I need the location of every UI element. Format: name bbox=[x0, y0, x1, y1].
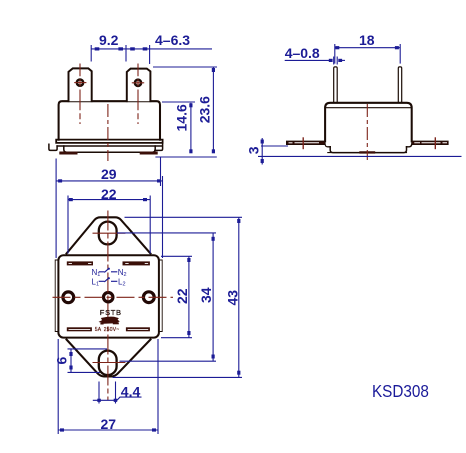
side view left curl bbox=[325, 144, 330, 147]
bottom view left side flange tab bbox=[55, 260, 58, 332]
bottom view horizontal centerline bbox=[53, 296, 174, 298]
dimension 22 horizontal bbox=[68, 196, 150, 254]
side view left flange hole centerline bbox=[302, 137, 304, 149]
svg-text:4–0.8: 4–0.8 bbox=[285, 45, 320, 61]
front view left foot bbox=[61, 152, 76, 155]
svg-text:5A250V~: 5A250V~ bbox=[95, 327, 120, 333]
svg-text:43: 43 bbox=[224, 290, 240, 306]
svg-text:6: 6 bbox=[54, 357, 70, 365]
front view vertical centerline bbox=[107, 104, 109, 161]
bottom view bottom oval hole bbox=[99, 351, 117, 376]
svg-text:22: 22 bbox=[174, 288, 190, 304]
svg-text:27: 27 bbox=[101, 416, 117, 432]
side view right flange hole centerline bbox=[434, 137, 436, 149]
svg-text:14.6: 14.6 bbox=[174, 104, 190, 131]
front view bottom cap bbox=[64, 146, 155, 152]
svg-text:FSTB: FSTB bbox=[100, 308, 122, 317]
side view bottom cap bbox=[328, 147, 407, 153]
front view right foot bbox=[141, 152, 156, 155]
side view left flange bbox=[286, 141, 325, 145]
bottom view right circle bbox=[143, 292, 154, 303]
dimension 18 bbox=[335, 44, 400, 64]
bottom view slot bottom-right bbox=[126, 327, 150, 331]
bottom view body outer bbox=[58, 255, 158, 337]
dimension 4.4 bbox=[93, 382, 142, 404]
marking logo blob bbox=[100, 317, 119, 323]
bottom view top oval centerline bbox=[93, 232, 126, 234]
bottom view vertical centerline bbox=[107, 211, 109, 401]
svg-text:29: 29 bbox=[101, 166, 117, 182]
dimension 23.6 bbox=[153, 67, 217, 152]
side view right curl bbox=[407, 144, 412, 147]
dimension 43 bbox=[113, 217, 243, 377]
bottom view bottom flange bbox=[67, 340, 151, 377]
bottom view center circle bbox=[104, 293, 113, 302]
dimension 34 bbox=[117, 233, 216, 361]
bottom view top flange bbox=[67, 217, 151, 253]
bottom view right side flange tab bbox=[159, 260, 162, 332]
svg-text:22: 22 bbox=[101, 186, 117, 202]
dimension 4-6.3 bbox=[150, 48, 212, 50]
side view right flange bbox=[412, 141, 449, 145]
bottom view slot bottom-left bbox=[67, 327, 92, 331]
bottom view slot top-right bbox=[123, 261, 150, 265]
dimension 29 bbox=[56, 158, 162, 259]
bottom view left circle bbox=[63, 292, 74, 303]
front view body outline bbox=[59, 101, 160, 140]
side view right pin bbox=[398, 67, 401, 103]
front view left hook bbox=[49, 144, 57, 150]
side view centerline bbox=[366, 104, 368, 160]
front view left tab hole bbox=[77, 80, 83, 86]
svg-text:9.2: 9.2 bbox=[99, 32, 119, 48]
dimension 9.2 bbox=[91, 45, 149, 64]
svg-text:KSD308: KSD308 bbox=[372, 381, 429, 401]
front view right terminal tab bbox=[127, 69, 151, 102]
front view right hook bbox=[155, 143, 163, 151]
svg-text:34: 34 bbox=[198, 287, 214, 303]
svg-text:18: 18 bbox=[359, 32, 375, 48]
front view centerline left tab bbox=[74, 64, 86, 125]
dimension 27 bbox=[58, 339, 158, 434]
dimension 4-0.8 bbox=[285, 57, 345, 65]
svg-text:23.6: 23.6 bbox=[197, 96, 213, 123]
side view body bbox=[325, 103, 412, 142]
front view left terminal tab bbox=[69, 68, 92, 101]
bottom view bottom oval centerline bbox=[93, 362, 126, 364]
front view right tab hole bbox=[135, 80, 141, 86]
svg-text:3: 3 bbox=[245, 146, 261, 154]
switch schematic N1 N2 bbox=[99, 268, 118, 282]
front view cap top edge bbox=[57, 145, 162, 147]
dimension 22 vertical bbox=[161, 256, 192, 337]
front view base plate bbox=[56, 140, 162, 143]
side view sensor mark bbox=[361, 151, 375, 153]
svg-text:4–6.3: 4–6.3 bbox=[155, 32, 190, 48]
bottom view slot top-left bbox=[67, 261, 93, 265]
bottom view top oval hole bbox=[99, 222, 117, 245]
front view centerline right tab bbox=[132, 64, 144, 125]
dimension 3 bbox=[258, 138, 462, 165]
dimension 6 bbox=[68, 349, 108, 373]
side view left pin bbox=[334, 67, 338, 103]
svg-text:4.4: 4.4 bbox=[121, 384, 141, 400]
dimension 14.6 bbox=[155, 102, 216, 157]
